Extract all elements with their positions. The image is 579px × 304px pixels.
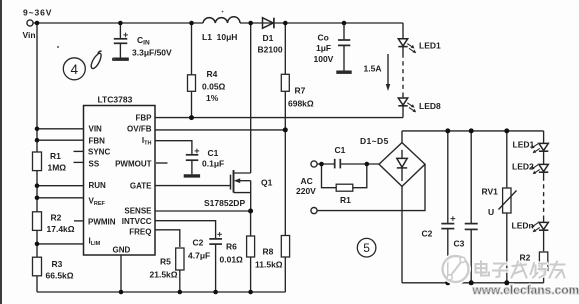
svg-text:17.4kΩ: 17.4kΩ: [47, 224, 75, 234]
svg-text:4: 4: [71, 62, 79, 77]
svg-text:Q1: Q1: [261, 178, 273, 188]
svg-text:RUN: RUN: [89, 181, 107, 190]
svg-text:PWMIN: PWMIN: [88, 218, 116, 227]
svg-text:INTVCC: INTVCC: [122, 217, 152, 226]
svg-text:D1~D5: D1~D5: [360, 136, 389, 146]
svg-text:C1: C1: [335, 145, 346, 155]
svg-text:OV/FB: OV/FB: [127, 125, 152, 134]
svg-text:4.7μF: 4.7μF: [188, 251, 210, 261]
svg-text:Vin: Vin: [23, 30, 36, 40]
svg-text:RV1: RV1: [482, 187, 499, 197]
svg-text:LED2: LED2: [512, 162, 534, 172]
svg-text:C3: C3: [454, 239, 465, 249]
svg-text:698kΩ: 698kΩ: [288, 99, 314, 109]
svg-text:9~36V: 9~36V: [23, 8, 52, 18]
svg-text:www.elecfans.com: www.elecfans.com: [472, 283, 579, 297]
svg-text:FBN: FBN: [89, 137, 106, 146]
svg-text:1μF: 1μF: [316, 43, 331, 53]
svg-text:SYNC: SYNC: [88, 148, 110, 157]
svg-text:S17852DP: S17852DP: [204, 198, 245, 208]
svg-text:U: U: [488, 207, 494, 217]
svg-text:LED1: LED1: [419, 41, 441, 51]
svg-text:SS: SS: [89, 160, 100, 169]
svg-text:R6: R6: [226, 242, 237, 252]
svg-text:C2: C2: [422, 229, 433, 239]
svg-text:FBP: FBP: [136, 114, 153, 123]
svg-text:1MΩ: 1MΩ: [48, 163, 67, 173]
svg-text:3.3μF/50V: 3.3μF/50V: [132, 48, 172, 58]
svg-text:AC: AC: [301, 176, 313, 186]
svg-text:L1 10μH: L1 10μH: [202, 32, 237, 42]
svg-text:R4: R4: [207, 69, 218, 79]
svg-text:R5: R5: [160, 257, 171, 267]
svg-text:R8: R8: [263, 247, 274, 257]
svg-text:1%: 1%: [206, 93, 219, 103]
svg-text:D1: D1: [263, 33, 274, 43]
svg-text:LED1: LED1: [513, 140, 535, 150]
svg-text:0.1μF: 0.1μF: [202, 159, 224, 169]
svg-text:R1: R1: [50, 151, 61, 161]
svg-text:PWMOUT: PWMOUT: [115, 160, 152, 169]
svg-text:11.5kΩ: 11.5kΩ: [255, 260, 283, 270]
svg-text:LEDn: LEDn: [512, 221, 534, 231]
svg-text:21.5kΩ: 21.5kΩ: [150, 270, 178, 280]
svg-text:Co: Co: [318, 33, 329, 43]
svg-text:LTC3783: LTC3783: [98, 95, 133, 105]
svg-text:0.05Ω: 0.05Ω: [202, 82, 226, 92]
svg-text:FREQ: FREQ: [129, 228, 151, 237]
svg-text:SENSE: SENSE: [124, 207, 152, 216]
svg-text:R2: R2: [51, 213, 62, 223]
svg-text:GND: GND: [113, 246, 131, 255]
svg-text:220V: 220V: [296, 186, 316, 196]
svg-text:VIN: VIN: [89, 125, 103, 134]
svg-text:GATE: GATE: [130, 182, 152, 191]
svg-text:1.5A: 1.5A: [364, 64, 382, 74]
svg-text:C1: C1: [208, 148, 219, 158]
svg-text:R2: R2: [520, 253, 531, 263]
svg-text:C2: C2: [193, 238, 204, 248]
svg-text:LED8: LED8: [419, 101, 441, 111]
svg-text:B2100: B2100: [258, 45, 283, 55]
svg-text:R1: R1: [340, 195, 351, 205]
svg-text:R7: R7: [295, 86, 306, 96]
svg-text:66.5kΩ: 66.5kΩ: [46, 271, 74, 281]
svg-text:5: 5: [363, 241, 370, 255]
svg-text:0.01Ω: 0.01Ω: [220, 255, 244, 265]
svg-text:R3: R3: [52, 259, 63, 269]
svg-text:100V: 100V: [314, 54, 334, 64]
